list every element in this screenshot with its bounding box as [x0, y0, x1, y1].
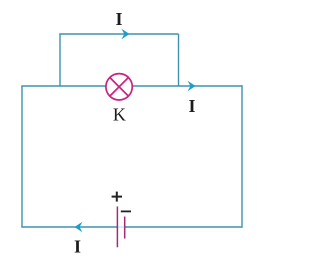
wire: main loop right vertical [241, 85, 243, 227]
battery short plate (negative) [124, 217, 126, 239]
svg-text:I: I [188, 96, 195, 116]
wire: bypass loop right vertical [178, 34, 180, 86]
current arrow on main top wire (points right) [188, 81, 196, 91]
wire: main loop top edge, left of lamp K [21, 85, 105, 87]
wire: main loop top edge, right of lamp K [133, 85, 242, 87]
current arrow on bottom wire (points left) [75, 222, 83, 232]
battery minus sign [121, 210, 131, 212]
wire: faint segment between battery plates [117, 226, 124, 228]
wire: bottom edge, right of battery [125, 226, 242, 228]
current arrow on bypass loop (points right) [122, 29, 130, 39]
battery plus sign [112, 192, 122, 202]
battery long plate (positive) [116, 207, 118, 248]
svg-text:K: K [113, 105, 126, 125]
wire: bypass loop left vertical [59, 34, 61, 86]
svg-text:I: I [115, 9, 122, 29]
wire: main loop left vertical [21, 86, 23, 227]
wire: bypass loop top edge [59, 33, 178, 35]
wire: bottom edge, left of battery [21, 226, 117, 228]
svg-text:I: I [74, 237, 81, 257]
lamp K: circle with X [106, 74, 132, 100]
